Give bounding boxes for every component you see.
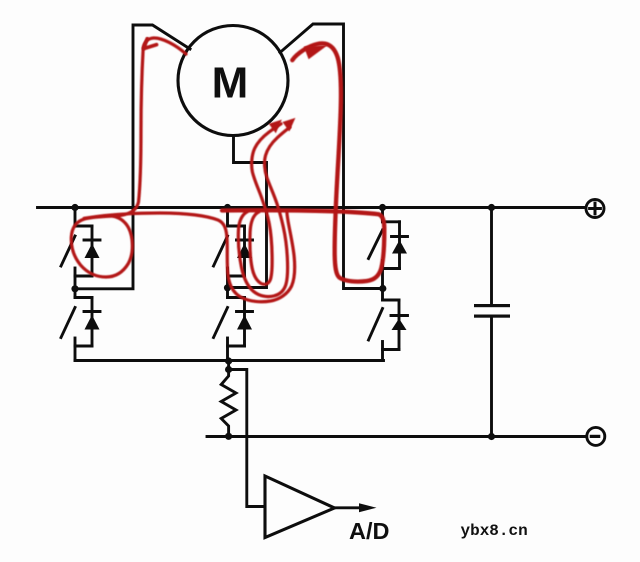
svg-text:M: M [212, 59, 249, 108]
svg-text:ybx8.cn: ybx8.cn [461, 522, 528, 540]
svg-text:A/D: A/D [349, 518, 389, 544]
